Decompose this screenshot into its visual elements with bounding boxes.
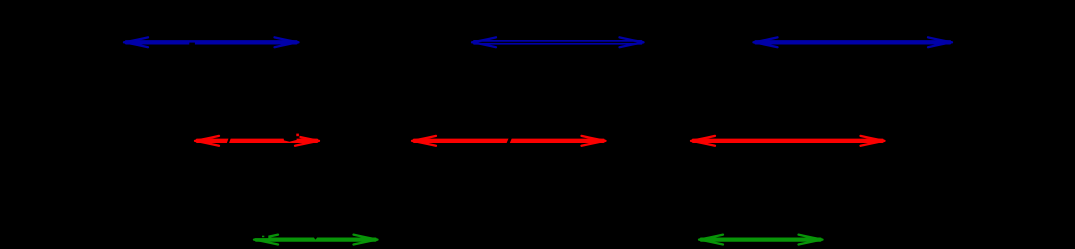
black label slash overlapping arrow R2 (gap) <box>505 135 513 147</box>
red span arrow R1 (middle-left) <box>195 136 319 146</box>
black label glyph occluding upper-left barb of G1 <box>252 233 268 239</box>
black label slash overlapping arrow R1 (first gap) <box>226 135 232 146</box>
green fleck of G1 barb visible through glyph gap <box>262 236 264 238</box>
red span arrow R2 (middle-center) <box>412 136 606 146</box>
green span arrow G2 (bottom-right) <box>699 235 823 245</box>
green span arrow G1 (bottom-left) <box>254 235 378 245</box>
black label glyph overlapping arrow B1 (notch) <box>189 43 195 45</box>
blue span arrow B1 (top-left) <box>124 37 299 47</box>
blue span arrow B3 (top-right) <box>754 37 953 47</box>
black label glyph overlapping arrow R1 (second gap) <box>284 138 297 142</box>
blue span arrow B2 (top-middle, double shaft) <box>472 37 644 47</box>
red span arrow R3 (middle-right) <box>691 136 885 146</box>
red fragment of R1 visible through glyph gap <box>296 134 299 137</box>
black label descender notching arrow G1 <box>313 236 318 239</box>
